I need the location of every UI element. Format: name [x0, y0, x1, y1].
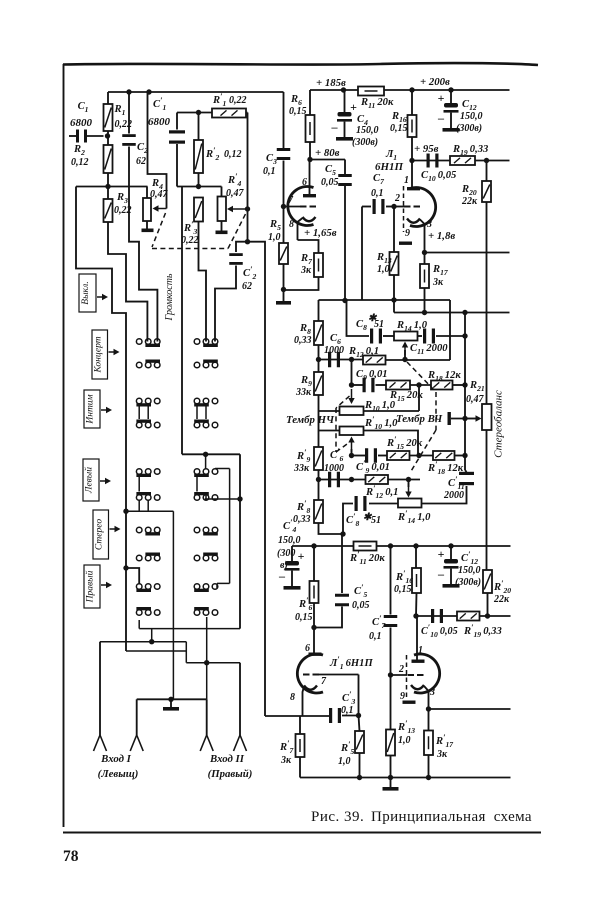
svg-text:(300в): (300в): [352, 137, 378, 148]
svg-text:C′6: C′6: [330, 446, 344, 463]
tube L1 triode 2 envelope: [410, 188, 436, 227]
svg-text:0,05: 0,05: [352, 600, 370, 611]
wire R10 left: [319, 410, 340, 412]
switch contact group row4 col1: [154, 422, 160, 428]
arrow Выкл: [97, 296, 103, 298]
capacitor C10: [427, 154, 430, 168]
node rail-R16: [409, 87, 414, 92]
tube L1prime triode 2 envelope: [414, 654, 440, 693]
svg-text:R′4: R′4: [227, 171, 242, 188]
svg-text:R′10 1,0: R′10 1,0: [364, 414, 398, 431]
matrix wire y583 to row9: [217, 582, 230, 584]
R14prime right lead: [422, 486, 467, 504]
svg-text:+ 185в: + 185в: [316, 77, 346, 89]
wire R3 staircase down: [108, 222, 147, 342]
svg-text:+ 1,8в: + 1,8в: [428, 230, 455, 242]
switch position label Стерео: [93, 510, 109, 559]
node R2-bottom: [105, 184, 110, 189]
svg-text:62: 62: [136, 156, 146, 167]
switch contact group row8 col1: [136, 555, 142, 561]
node R6p-C5p: [311, 625, 316, 630]
svg-text:2000: 2000: [443, 490, 464, 501]
svg-text:C11 2000: C11 2000: [410, 343, 448, 356]
node rail-R6p: [311, 543, 316, 548]
node +95v: [409, 158, 414, 163]
resistor R9 33k: [318, 360, 320, 373]
svg-text:3к: 3к: [432, 277, 444, 288]
bottom ground rail: [300, 777, 511, 779]
node C10p-node: [413, 613, 418, 618]
capacitor C2: [128, 92, 130, 134]
svg-text:+ 95в: + 95в: [414, 143, 439, 155]
node C6-R12: [349, 357, 354, 362]
input terminal Vhod II right: [234, 735, 241, 751]
node C2p-tap: [245, 239, 250, 244]
switch position label Левый: [83, 459, 99, 501]
resistor R1prime 0.22: [212, 109, 246, 118]
node R15p-R18p: [416, 453, 421, 458]
svg-text:C′2: C′2: [243, 264, 257, 281]
svg-text:78: 78: [63, 848, 79, 865]
switch contact group row3 col2: [212, 398, 218, 404]
wire left drop prime: [181, 187, 183, 455]
svg-text:R′2: R′2: [205, 145, 220, 162]
svg-text:0,1: 0,1: [371, 188, 384, 199]
wire R2p to y186: [198, 173, 200, 187]
svg-text:Левый: Левый: [84, 467, 95, 494]
node R12p-R14p: [406, 477, 411, 482]
resistor R5prime 1.0: [359, 716, 360, 732]
arrow Стерео: [110, 528, 116, 530]
potentiometer R10 bass: [418, 385, 420, 411]
capacitor C4 electrolytic: [341, 87, 346, 92]
wire y709 output row: [429, 708, 511, 710]
node R4p-wiper: [245, 206, 250, 211]
svg-text:C′12: C′12: [461, 549, 478, 566]
wire R8p bottom: [319, 523, 344, 534]
svg-text:0,47: 0,47: [466, 394, 485, 405]
matrix wire y662 terminal4: [185, 642, 187, 663]
node C11-x465: [462, 333, 467, 338]
capacitor C6prime 1000: [328, 472, 331, 488]
lower B+ rail: [292, 545, 511, 547]
svg-text:–: –: [278, 569, 286, 583]
resistor R6prime: [313, 546, 315, 581]
anode triode1: [303, 194, 316, 197]
svg-text:(300: (300: [277, 548, 295, 559]
resistor R20prime 22k: [483, 570, 492, 593]
svg-text:R11 20к: R11 20к: [360, 97, 394, 110]
svg-text:0,15: 0,15: [295, 612, 313, 623]
resistor R9prime 33k: [314, 447, 323, 470]
svg-text:C2: C2: [137, 142, 148, 155]
capacitor C8* 51: [344, 301, 369, 337]
capacitor C4prime electrolytic: [291, 546, 293, 561]
svg-text:Правый: Правый: [85, 570, 96, 603]
svg-text:0,12: 0,12: [71, 157, 89, 168]
anode triode1p: [309, 653, 322, 656]
node cathode2p: [426, 706, 431, 711]
resistor R15 20k: [386, 381, 410, 390]
svg-text:0,1: 0,1: [369, 631, 382, 642]
node grid1: [281, 204, 286, 209]
svg-text:Принципиальная схема: Принципиальная схема: [371, 809, 532, 825]
svg-text:2: 2: [398, 664, 404, 675]
heater bar tube1: [399, 242, 412, 245]
wire y455 row: [352, 455, 367, 457]
svg-text:+: +: [438, 91, 445, 105]
resistor R7prime 3k: [299, 716, 301, 734]
resistor R19 0.33: [450, 156, 475, 165]
capacitor C11 2000: [418, 335, 423, 337]
row5-row6 connectors: [138, 475, 140, 492]
svg-text:3: 3: [429, 687, 435, 698]
mid rail 2: [393, 300, 395, 313]
node R9p-C6p: [316, 477, 321, 482]
node R8-C6: [316, 357, 321, 362]
matrix wire y454: [182, 453, 240, 455]
capacitor C10prime: [431, 609, 434, 623]
R21 wiper: [448, 412, 451, 425]
wire R1p right vertical: [247, 113, 249, 242]
svg-text:+: +: [350, 100, 357, 114]
R14 wiper arrow: [404, 350, 406, 360]
svg-text:R17: R17: [432, 264, 449, 277]
svg-text:150,0: 150,0: [356, 125, 379, 136]
svg-text:3к: 3к: [436, 749, 448, 760]
svg-text:8: 8: [290, 692, 295, 703]
switch contact group row4 col2: [212, 422, 218, 428]
svg-text:6Н1П: 6Н1П: [375, 161, 404, 173]
switch contact group row7 col2: [194, 527, 200, 533]
svg-text:R2: R2: [73, 144, 85, 157]
matrix hook y568 to row9: [123, 565, 128, 570]
switch contact group row7 col1: [136, 527, 142, 533]
svg-text:R′18 12к: R′18 12к: [427, 459, 464, 476]
matrix wire y511: [123, 509, 128, 514]
ground symbol bottom: [390, 778, 392, 788]
resistor R11 20k: [358, 87, 384, 96]
svg-text:0,1: 0,1: [263, 166, 276, 177]
matrix wire y499: [205, 498, 240, 500]
capacitor C7: [362, 206, 371, 208]
input terminal Vhod I left: [94, 735, 101, 751]
wire grid1p down: [358, 675, 360, 716]
switch position label Правый: [84, 565, 100, 608]
resistor R8 0.33: [318, 300, 320, 321]
node R18p-x465: [462, 453, 467, 458]
grid triode2: [404, 206, 411, 208]
svg-text:C′11: C′11: [448, 474, 465, 491]
svg-text:(300в): (300в): [456, 123, 482, 134]
svg-text:R′1: R′1: [212, 91, 227, 108]
cathode triode1: [303, 217, 316, 221]
svg-text:C1: C1: [78, 101, 89, 114]
switch contact group row10 col1: [154, 610, 160, 616]
node +80v: [307, 157, 312, 162]
switch position label Интим: [84, 390, 100, 428]
vertical x465: [464, 313, 466, 471]
cathode triode2: [407, 219, 420, 223]
switch contact group row10 col2: [212, 610, 218, 616]
switch matrix left feeder staircase: [76, 187, 126, 652]
wire to R4 wiper: [148, 92, 167, 209]
tube L1prime triode 1 envelope: [297, 654, 323, 693]
svg-text:0,12: 0,12: [224, 149, 242, 160]
node bus-C2: [126, 89, 131, 94]
svg-text:2: 2: [394, 193, 400, 204]
resistor R19prime 0.33: [457, 612, 480, 621]
wire R1-C1 junction: [107, 131, 109, 145]
svg-text:–: –: [331, 120, 339, 134]
matrix wire y651: [126, 650, 186, 652]
svg-text:–: –: [437, 111, 445, 125]
wiper R4prime: [232, 208, 248, 210]
svg-text:0,1: 0,1: [341, 705, 354, 716]
svg-text:0,47: 0,47: [150, 189, 169, 200]
matrix wire y628: [138, 620, 140, 629]
resistor R17 3k: [424, 253, 426, 265]
node C6p-R12p: [349, 477, 354, 482]
R10prime wiper arrow: [351, 449, 353, 456]
resistor R18prime 12k: [433, 451, 455, 460]
anode triode2p: [412, 660, 425, 663]
svg-text:1: 1: [404, 175, 409, 186]
svg-text:0,05: 0,05: [321, 177, 339, 188]
grid triode1: [300, 206, 307, 208]
svg-text:Стереобаланс: Стереобаланс: [493, 390, 505, 458]
potentiometer R21 stereo balance: [482, 404, 492, 430]
R10prime right lead: [364, 431, 419, 456]
svg-text:9: 9: [405, 228, 410, 239]
potentiometer R4prime: [221, 187, 223, 197]
svg-text:1,0: 1,0: [268, 232, 281, 243]
switch contact group row9 col1: [154, 584, 160, 590]
arrow Правый: [101, 584, 107, 586]
node wire112-R2p: [196, 110, 201, 115]
svg-text:62: 62: [242, 281, 252, 292]
svg-text:C5: C5: [325, 164, 336, 177]
svg-text:(Правый): (Правый): [208, 768, 253, 780]
R10 wiper arrow: [351, 389, 353, 399]
wire long vertical to lower tube: [248, 242, 266, 716]
potentiometer R10prime: [340, 427, 364, 436]
node rail2-C11branch: [462, 310, 467, 315]
potentiometer R14prime 1.0: [398, 499, 422, 508]
switch contact group row6 col2: [212, 495, 218, 501]
resistor R13prime 1.0: [390, 675, 392, 730]
wire y160 output row: [412, 160, 510, 162]
capacitor C9prime 0.01: [365, 448, 368, 463]
cathode triode1p: [304, 686, 317, 690]
switch contact group row1 col2: [194, 339, 200, 345]
svg-text:C8: C8: [356, 319, 367, 332]
svg-text:R′19 0,33: R′19 0,33: [463, 622, 502, 639]
cathode triode2p: [411, 685, 424, 689]
svg-text:0,15: 0,15: [394, 584, 412, 595]
svg-text:22к: 22к: [461, 196, 478, 207]
svg-text:R1: R1: [114, 104, 126, 117]
node R12-R14wiper: [402, 357, 407, 362]
svg-text:+: +: [298, 549, 305, 563]
svg-text:C′9 0,01: C′9 0,01: [356, 458, 390, 475]
svg-text:(300в): (300в): [455, 577, 481, 588]
ground at input: [168, 697, 173, 702]
node bus-R4wiper: [146, 89, 151, 94]
svg-text:0,15: 0,15: [390, 123, 408, 134]
svg-text:C′10 0,05: C′10 0,05: [421, 622, 458, 639]
capacitor C3: [283, 92, 285, 148]
resistor R16: [411, 90, 413, 115]
capacitor C11prime 2000: [459, 472, 474, 475]
capacitor C5prime: [342, 533, 343, 535]
svg-text:R′12 0,1: R′12 0,1: [365, 483, 398, 500]
svg-text:Вход I: Вход I: [100, 753, 131, 765]
svg-text:Интим: Интим: [86, 394, 96, 424]
switch contact group row9 col2: [212, 584, 218, 590]
wire R3p down to switch: [199, 222, 207, 342]
svg-text:150,0: 150,0: [278, 535, 301, 546]
wire y359: [319, 359, 364, 361]
svg-text:R3: R3: [116, 192, 128, 205]
svg-text:+ 80в: + 80в: [315, 147, 340, 159]
B+ rail 185V: [310, 89, 510, 91]
node R20p-C10p: [485, 613, 490, 618]
wire rail1 right corner: [449, 300, 451, 360]
svg-text:0,22: 0,22: [229, 95, 247, 106]
ground bar under R4: [146, 221, 148, 229]
switch position label Концерт: [92, 330, 108, 379]
node R18-x465: [462, 382, 467, 387]
svg-text:R21: R21: [469, 380, 485, 393]
input terminal Vhod II left: [200, 735, 207, 751]
svg-text:22к: 22к: [493, 594, 510, 605]
svg-text:3: 3: [426, 219, 432, 230]
tube L1 triode 1 envelope: [288, 187, 314, 226]
dashed gang line R4-R4prime: [152, 213, 166, 247]
arrow Левый: [100, 480, 106, 482]
wire C8prime row: [369, 503, 398, 505]
svg-text:–: –: [437, 567, 445, 581]
svg-text:1,0: 1,0: [377, 264, 390, 275]
node grid2p: [388, 672, 393, 677]
matrix ground drop x173: [172, 511, 174, 699]
tube divider dashed lower: [406, 655, 408, 700]
svg-text:150,0: 150,0: [460, 111, 483, 122]
svg-text:8: 8: [289, 219, 294, 230]
anode triode2: [407, 187, 420, 190]
capacitor C3prime: [329, 708, 332, 723]
svg-text:+ 200в: + 200в: [420, 76, 450, 88]
resistor R20 22k: [482, 181, 491, 202]
node R5-R7: [281, 287, 286, 292]
resistor R7: [298, 240, 319, 253]
resistor R15prime 20k: [387, 451, 410, 460]
resistor R13 1.0: [393, 207, 395, 253]
svg-text:C′1: C′1: [153, 95, 167, 112]
svg-text:C′3: C′3: [342, 689, 356, 706]
wire y186 horizontal: [76, 186, 148, 188]
resistor R12prime 0.1: [366, 475, 389, 484]
resistor R12 0.1: [363, 356, 386, 365]
node rail-R16p: [413, 543, 418, 548]
row3-row4 connectors: [138, 404, 140, 419]
svg-text:R′17: R′17: [435, 732, 454, 749]
R14prime wiper arrow: [408, 480, 410, 488]
switch contact group row5 col1: [154, 469, 160, 475]
signal bus wire: [108, 91, 284, 93]
capacitor C12 electrolytic: [448, 87, 453, 92]
arrow Интим: [101, 409, 107, 411]
potentiometer R14 1.0: [394, 332, 418, 341]
node rail-C7p: [388, 543, 393, 548]
svg-text:51: 51: [371, 515, 381, 526]
resistor R16prime: [415, 546, 417, 568]
capacitor C9 0.01: [363, 378, 366, 393]
capacitor C1prime: [176, 113, 178, 130]
svg-text:Выкл.: Выкл.: [81, 281, 91, 304]
capacitor C2prime: [236, 242, 248, 252]
svg-text:0,22: 0,22: [181, 235, 199, 246]
grid triode2p: [408, 674, 415, 676]
svg-text:6800: 6800: [148, 116, 171, 128]
svg-text:R′13: R′13: [397, 718, 415, 735]
switch contact group row2 col1: [136, 362, 142, 368]
svg-text:7: 7: [321, 676, 327, 687]
svg-text:3к: 3к: [300, 265, 312, 276]
wire y616 output row: [416, 615, 511, 617]
input terminal Vhod I right: [130, 735, 137, 751]
svg-text:0,47: 0,47: [226, 188, 245, 199]
svg-text:6800: 6800: [70, 117, 93, 129]
svg-text:R′14 1,0: R′14 1,0: [397, 508, 431, 525]
resistor R3: [104, 199, 113, 222]
svg-text:1,0: 1,0: [338, 756, 351, 767]
svg-text:0,15: 0,15: [289, 106, 307, 117]
switch contact group row3 col1: [154, 398, 160, 404]
svg-text:R′11 20к: R′11 20к: [349, 549, 385, 566]
svg-text:C10 0,05: C10 0,05: [421, 170, 457, 183]
matrix col2 drop to input: [206, 617, 208, 699]
svg-text:9: 9: [400, 691, 405, 702]
svg-text:R′7: R′7: [279, 738, 295, 755]
node R15-R18: [416, 382, 421, 387]
svg-text:Рис. 39.: Рис. 39.: [311, 809, 364, 825]
stereo balance vertical: [486, 161, 488, 182]
svg-text:1000: 1000: [324, 345, 344, 356]
svg-text:R′8: R′8: [296, 498, 311, 515]
wire y252 output row: [425, 252, 510, 254]
switch contact group row2 col2: [194, 362, 200, 368]
heater bar tube2: [403, 701, 416, 704]
grid triode1p: [303, 674, 310, 676]
resistor R18 12k: [431, 381, 453, 390]
svg-text:3к: 3к: [280, 755, 292, 766]
wire bus down to R1: [107, 92, 109, 104]
wire R2 to y186 rail: [107, 173, 109, 187]
svg-text:51: 51: [374, 319, 384, 330]
svg-text:C3: C3: [266, 153, 277, 166]
capacitor C1: [69, 135, 76, 137]
chassis bar below R5: [283, 290, 285, 302]
node C8p-C5p: [340, 531, 345, 536]
switch contact group row5 col2: [212, 469, 218, 475]
svg-text:1,0: 1,0: [398, 735, 411, 746]
resistor R5: [279, 243, 288, 264]
svg-text:Громкость: Громкость: [164, 273, 175, 321]
node R19-R20: [484, 158, 489, 163]
svg-text:R′20: R′20: [493, 578, 511, 595]
